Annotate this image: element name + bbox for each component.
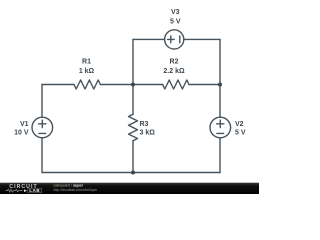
svg-text:saikayak0 / super: saikayak0 / super [54, 183, 84, 187]
wire right branch lower [219, 138, 221, 173]
wire middle branch upper [132, 85, 134, 115]
logo arrow marker [24, 189, 27, 192]
node junction R3-bottom rail [131, 171, 135, 175]
wire right branch upper [219, 85, 221, 118]
wire left branch lower [41, 138, 43, 173]
resistor R3 [129, 114, 138, 140]
voltage source V3 (circle and polarity marks) [165, 30, 184, 49]
node junction R2-V2-loop [218, 83, 222, 87]
svg-text:10 V: 10 V [14, 129, 29, 136]
wire top loop left vertical [132, 39, 134, 84]
node junction R1-R2-R3-loop [131, 83, 135, 87]
svg-text:2.2 kΩ: 2.2 kΩ [163, 68, 185, 75]
wire top loop right horizontal [184, 38, 220, 40]
svg-text:V1: V1 [20, 121, 29, 128]
svg-text:V2: V2 [235, 121, 244, 128]
voltage source V1 (circle and polarity marks) [32, 117, 53, 138]
svg-text:1 kΩ: 1 kΩ [79, 68, 95, 75]
wire bottom rail [42, 172, 220, 174]
wire R1 to node [100, 84, 133, 86]
svg-text:R2: R2 [170, 59, 179, 66]
wire top loop right vertical [219, 39, 221, 84]
wire top loop left horizontal [133, 38, 165, 40]
logo waveform [6, 189, 23, 192]
logo LAB box [28, 188, 42, 192]
wire R2 to right node [189, 84, 220, 86]
svg-text:5 V: 5 V [170, 18, 181, 25]
wire middle row left [42, 84, 74, 86]
wire left branch upper [41, 85, 43, 118]
voltage source V2 (circle and polarity marks) [210, 117, 231, 138]
svg-text:http://circuitlab.com/c/tm5qcm: http://circuitlab.com/c/tm5qcm [54, 188, 98, 192]
wire middle branch lower [132, 141, 134, 173]
svg-text:LAB: LAB [29, 188, 40, 193]
wire node to R2 [133, 84, 163, 86]
resistor R1 [74, 80, 100, 89]
svg-text:5 V: 5 V [235, 129, 246, 136]
svg-text:R1: R1 [82, 59, 91, 66]
svg-text:V3: V3 [171, 9, 180, 16]
svg-text:3 kΩ: 3 kΩ [140, 129, 156, 136]
resistor R2 [163, 80, 189, 89]
svg-text:R3: R3 [140, 121, 149, 128]
